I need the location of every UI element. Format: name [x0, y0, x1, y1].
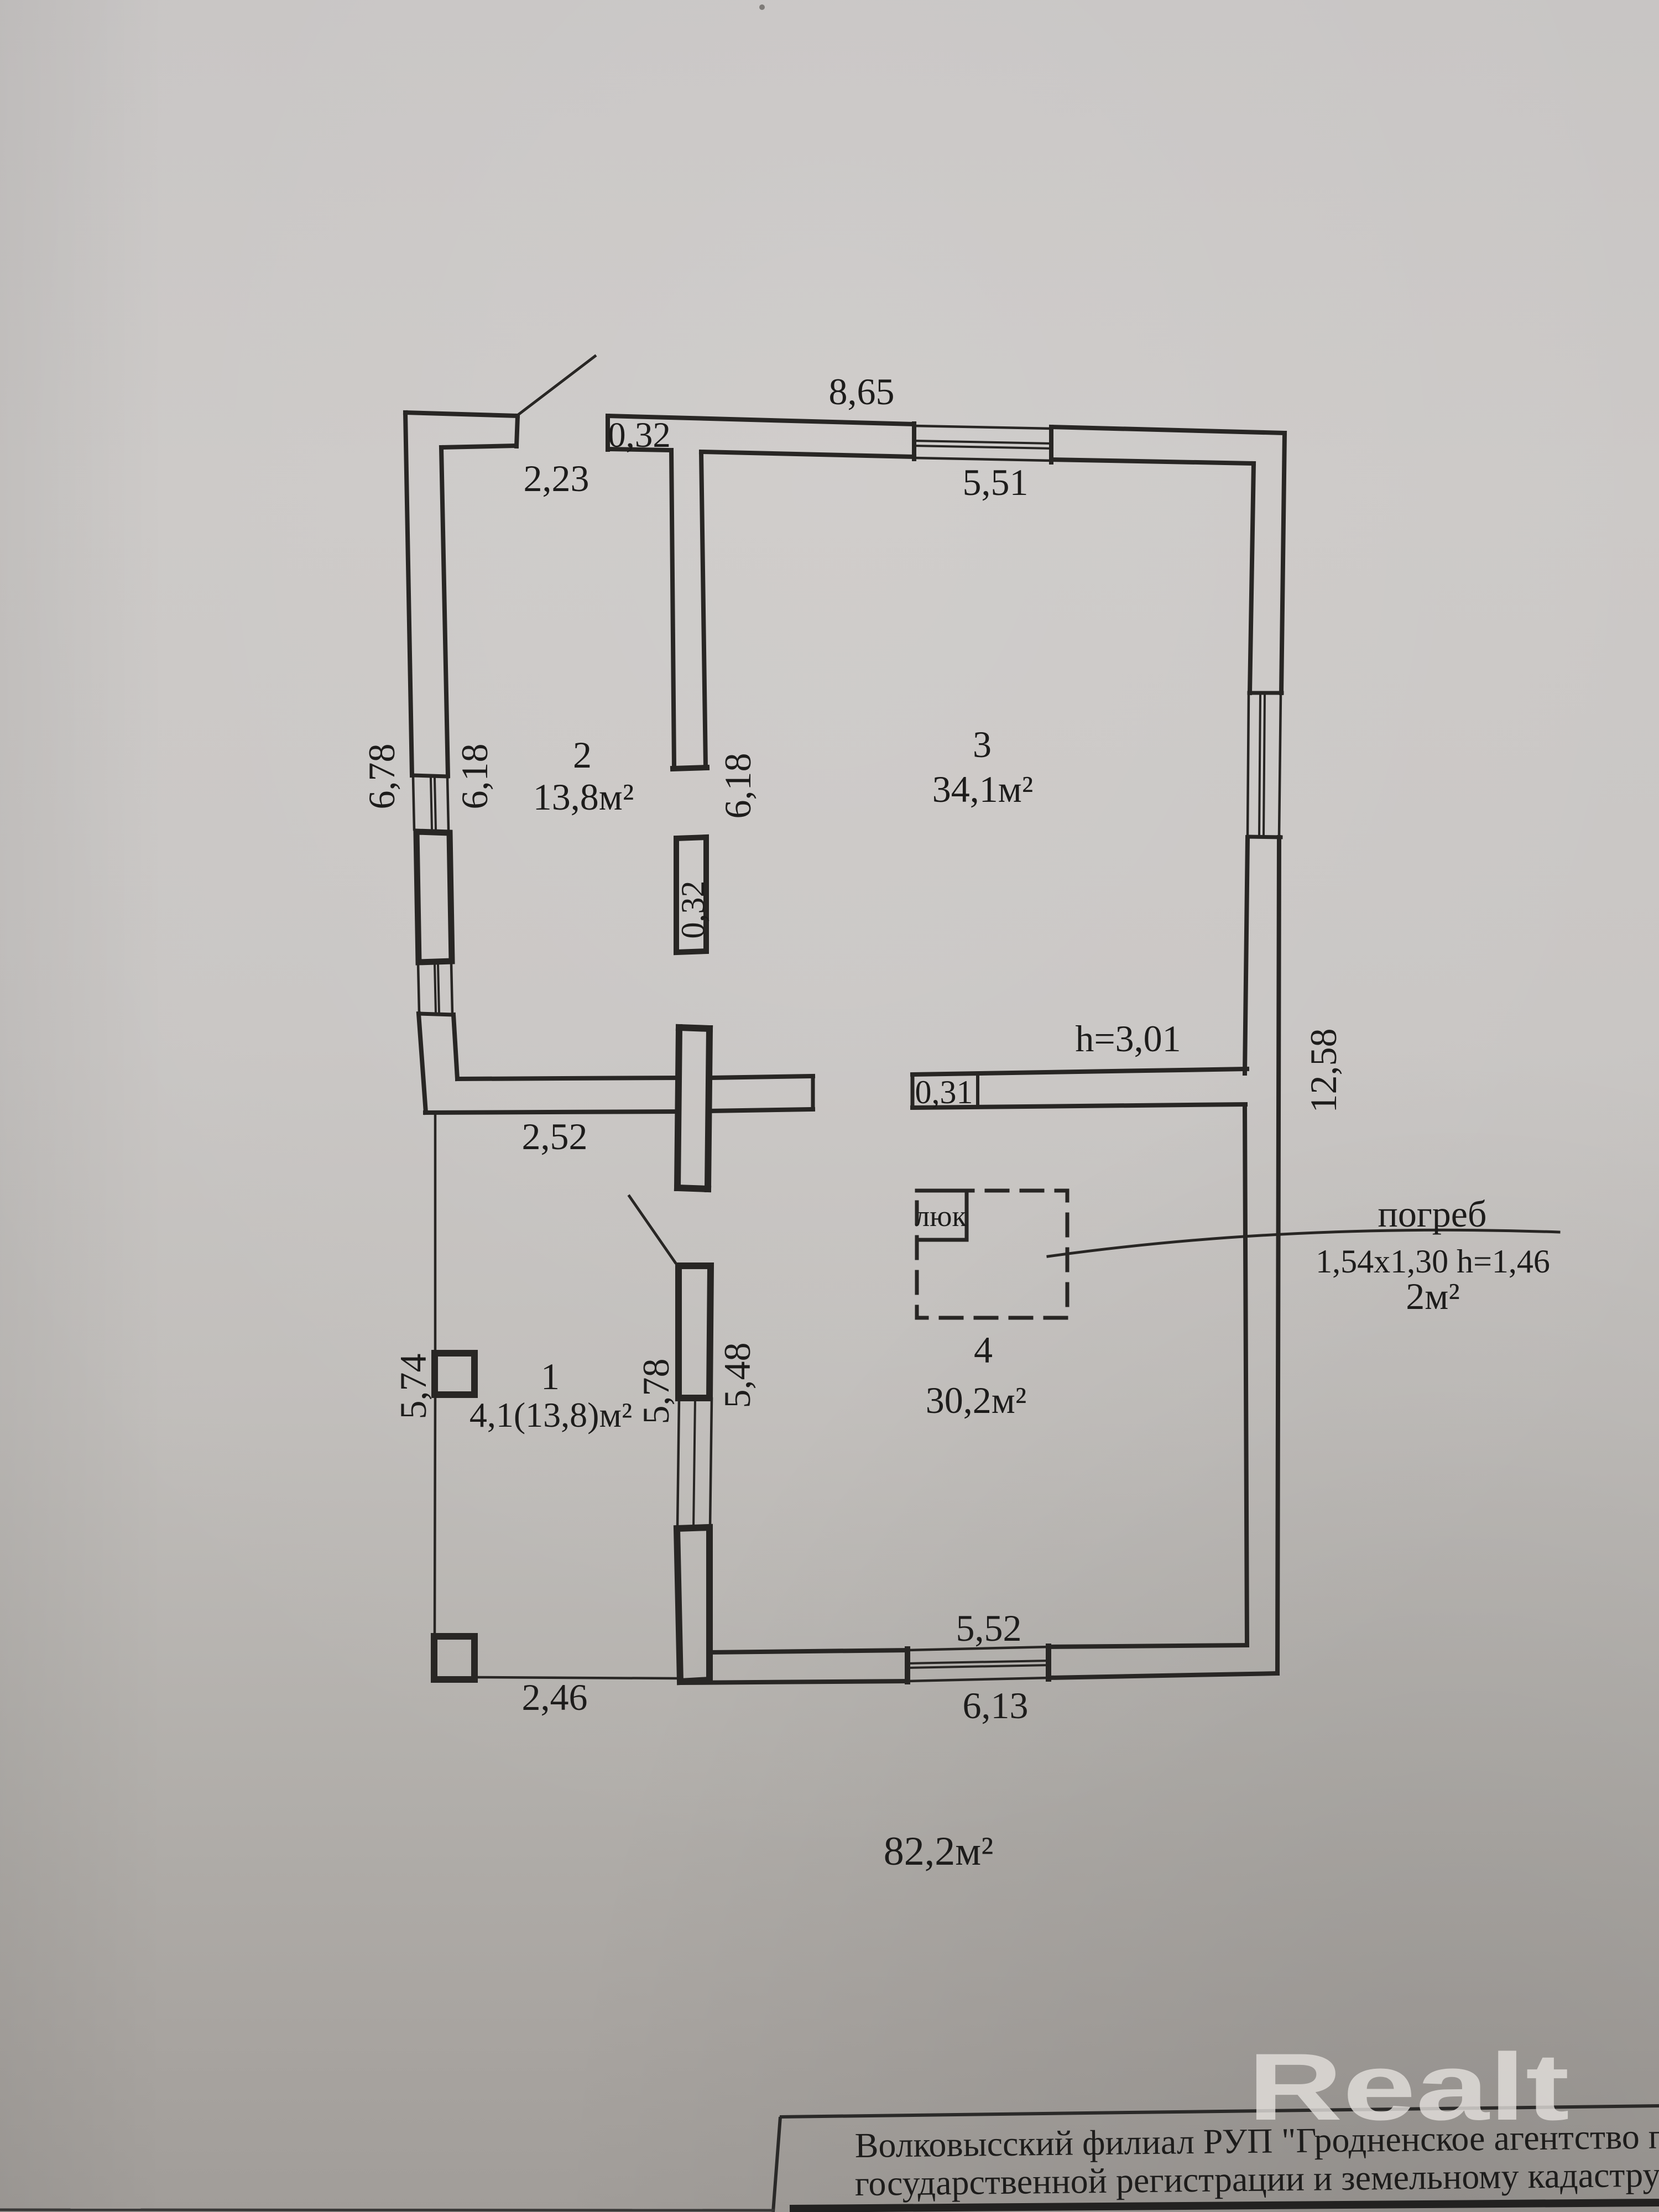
- svg-text:5,78: 5,78: [635, 1359, 677, 1425]
- svg-text:4,1(13,8)м²: 4,1(13,8)м²: [469, 1395, 632, 1434]
- east wall cap above window 4: [1249, 691, 1282, 695]
- south wall outer line left section: [680, 1681, 907, 1683]
- hatch lyuk solid outline: [917, 1191, 967, 1240]
- window w2 middle line a: [435, 964, 436, 1013]
- window w2 right thin line: [451, 963, 452, 1014]
- window w5 top thin line: [907, 1647, 1048, 1650]
- svg-text:5,52: 5,52: [956, 1607, 1022, 1649]
- east wall inner line lower: [1245, 1107, 1247, 1645]
- window wb left thin line: [677, 1399, 679, 1528]
- window w4 middle line b: [1264, 695, 1265, 836]
- svg-text:6,18: 6,18: [453, 744, 495, 810]
- svg-text:30,2м²: 30,2м²: [926, 1379, 1026, 1421]
- north wall inner line left section: [701, 452, 914, 457]
- hall cross bar top cap: [679, 1027, 709, 1029]
- window w5 middle line a: [907, 1661, 1048, 1663]
- mid wall right arm top edge: [709, 1076, 813, 1078]
- south wall inner line right section: [1048, 1645, 1247, 1647]
- wall segment 0,31 bottom edge: [912, 1104, 1245, 1108]
- window w1 middle line a: [431, 779, 432, 829]
- window w1 right thin line: [447, 777, 448, 830]
- west wall pier box between windows: [416, 832, 452, 962]
- cellar dashed outline: [917, 1191, 1067, 1318]
- svg-text:12,58: 12,58: [1302, 1029, 1344, 1113]
- window w5 bottom thin line: [907, 1678, 1048, 1681]
- window w3 middle line a: [914, 441, 1051, 444]
- window wb middle line: [693, 1399, 695, 1528]
- west wall cap below window 2: [419, 1014, 453, 1015]
- window w2 middle line b: [438, 964, 439, 1013]
- window w3 bottom thin line: [914, 458, 1051, 461]
- svg-text:5,51: 5,51: [963, 461, 1029, 503]
- table bottom thick line: [790, 2203, 1659, 2209]
- west wall outer line lower: [419, 1014, 426, 1113]
- wall segment 0,31 left cap: [911, 1074, 915, 1108]
- svg-text:4: 4: [974, 1329, 993, 1371]
- room 1 open edge thin line lower: [435, 1395, 435, 1636]
- divider wall 1-4 upper piece: [679, 1266, 711, 1398]
- WALLS: [405, 356, 1559, 1683]
- divider wall 2-3 right edge: [701, 452, 706, 766]
- north wall outer line right section: [1051, 427, 1285, 433]
- room 1 pillar bottom: [434, 1636, 474, 1679]
- window w3 middle line b: [914, 446, 1051, 448]
- mid wall right arm bottom edge: [708, 1109, 813, 1111]
- window w5 middle line b: [907, 1665, 1048, 1668]
- hall cross bar left edge: [677, 1027, 679, 1188]
- room 1 bottom edge thin line: [475, 1677, 676, 1678]
- wall segment 0,31 top edge: [912, 1069, 1247, 1074]
- svg-text:2,46: 2,46: [522, 1676, 588, 1718]
- svg-text:13,8м²: 13,8м²: [533, 776, 634, 818]
- window w4 middle line a: [1259, 695, 1260, 836]
- west wall inner line upper: [441, 447, 448, 776]
- window w4 inner thin line: [1248, 694, 1249, 836]
- entry door swing arc line: [518, 356, 595, 415]
- mid wall right arm end cap: [811, 1076, 815, 1109]
- svg-text:погреб: погреб: [1378, 1193, 1486, 1235]
- divider wall 2-3 left edge: [671, 450, 674, 768]
- svg-text:6,78: 6,78: [361, 744, 403, 810]
- window w1 left thin line: [413, 777, 414, 830]
- svg-text:2м²: 2м²: [1406, 1275, 1459, 1317]
- hall cross bar right edge: [708, 1029, 709, 1189]
- svg-text:0,31: 0,31: [915, 1074, 973, 1110]
- north wall end box left edge: [606, 416, 610, 450]
- south wall outer line right section: [1048, 1673, 1277, 1678]
- page bottom edge line: [0, 2210, 774, 2210]
- entry top wall outer line: [405, 413, 518, 416]
- west wall inner line lower: [453, 1015, 457, 1079]
- east wall inner line middle: [1245, 837, 1248, 1073]
- svg-text:люк: люк: [915, 1199, 967, 1233]
- window w3 top thin line: [914, 426, 1051, 429]
- svg-text:2,23: 2,23: [524, 457, 589, 499]
- window w3 right jamb: [1049, 427, 1053, 462]
- east wall inner line upper: [1250, 463, 1254, 693]
- svg-text:0,32: 0,32: [608, 415, 671, 455]
- west wall outer line upper: [405, 413, 412, 775]
- hall cross bar bottom cap: [677, 1188, 708, 1189]
- east wall outer line upper: [1281, 433, 1285, 693]
- svg-text:0,32: 0,32: [675, 881, 711, 939]
- window w2 left thin line: [418, 963, 419, 1013]
- east wall cap below window 4: [1248, 837, 1281, 837]
- svg-text:82,2м²: 82,2м²: [884, 1829, 994, 1874]
- window w1 middle line b: [435, 779, 436, 829]
- west wall cap above window 1: [412, 775, 448, 776]
- divider wall 1-4 lower piece: [677, 1527, 709, 1682]
- east wall outer line lower: [1277, 837, 1279, 1673]
- svg-text:2: 2: [573, 734, 592, 776]
- svg-text:Realt: Realt: [1248, 2034, 1569, 2140]
- table top border: [780, 2106, 1659, 2117]
- svg-text:1: 1: [541, 1355, 560, 1397]
- window w5 left jamb: [905, 1649, 910, 1682]
- south wall inner line left section: [711, 1650, 907, 1652]
- TABLE BLOCK: [0, 2106, 1659, 2212]
- wall segment 0,31 label box divider: [976, 1073, 979, 1107]
- window w3 left jamb: [912, 424, 916, 459]
- svg-text:1,54x1,30 h=1,46: 1,54x1,30 h=1,46: [1316, 1243, 1550, 1280]
- svg-text:3: 3: [973, 723, 992, 765]
- room 1 open edge thin line upper: [434, 1114, 437, 1353]
- svg-text:8,65: 8,65: [829, 371, 895, 413]
- cellar leader line: [1048, 1230, 1559, 1256]
- svg-text:5,48: 5,48: [716, 1343, 758, 1408]
- room 1 door swing line: [629, 1196, 675, 1262]
- north wall end box bottom edge: [608, 449, 671, 450]
- entry top wall inner line: [441, 446, 517, 447]
- svg-text:5,74: 5,74: [392, 1354, 434, 1420]
- window wb right thin line: [710, 1399, 712, 1528]
- svg-text:6,18: 6,18: [717, 753, 759, 819]
- north wall inner line right section: [1051, 460, 1254, 463]
- svg-text:6,13: 6,13: [963, 1684, 1029, 1726]
- table left border: [773, 2117, 780, 2212]
- svg-text:34,1м²: 34,1м²: [932, 768, 1033, 810]
- room 1 pillar top: [435, 1353, 474, 1395]
- paper speck: [759, 4, 765, 10]
- divider wall 2-3 bottom cap: [673, 768, 707, 769]
- divider wall stub box 0,32: [676, 837, 706, 952]
- north wall outer line left section: [608, 416, 914, 424]
- mid wall bottom edge left section: [425, 1112, 678, 1113]
- mid wall top edge left section: [457, 1078, 679, 1079]
- svg-text:2,52: 2,52: [522, 1115, 588, 1157]
- svg-text:h=3,01: h=3,01: [1075, 1018, 1181, 1060]
- window w4 outer thin line: [1279, 694, 1281, 836]
- window w5 right jamb: [1046, 1646, 1051, 1679]
- entry door jamb: [517, 416, 518, 446]
